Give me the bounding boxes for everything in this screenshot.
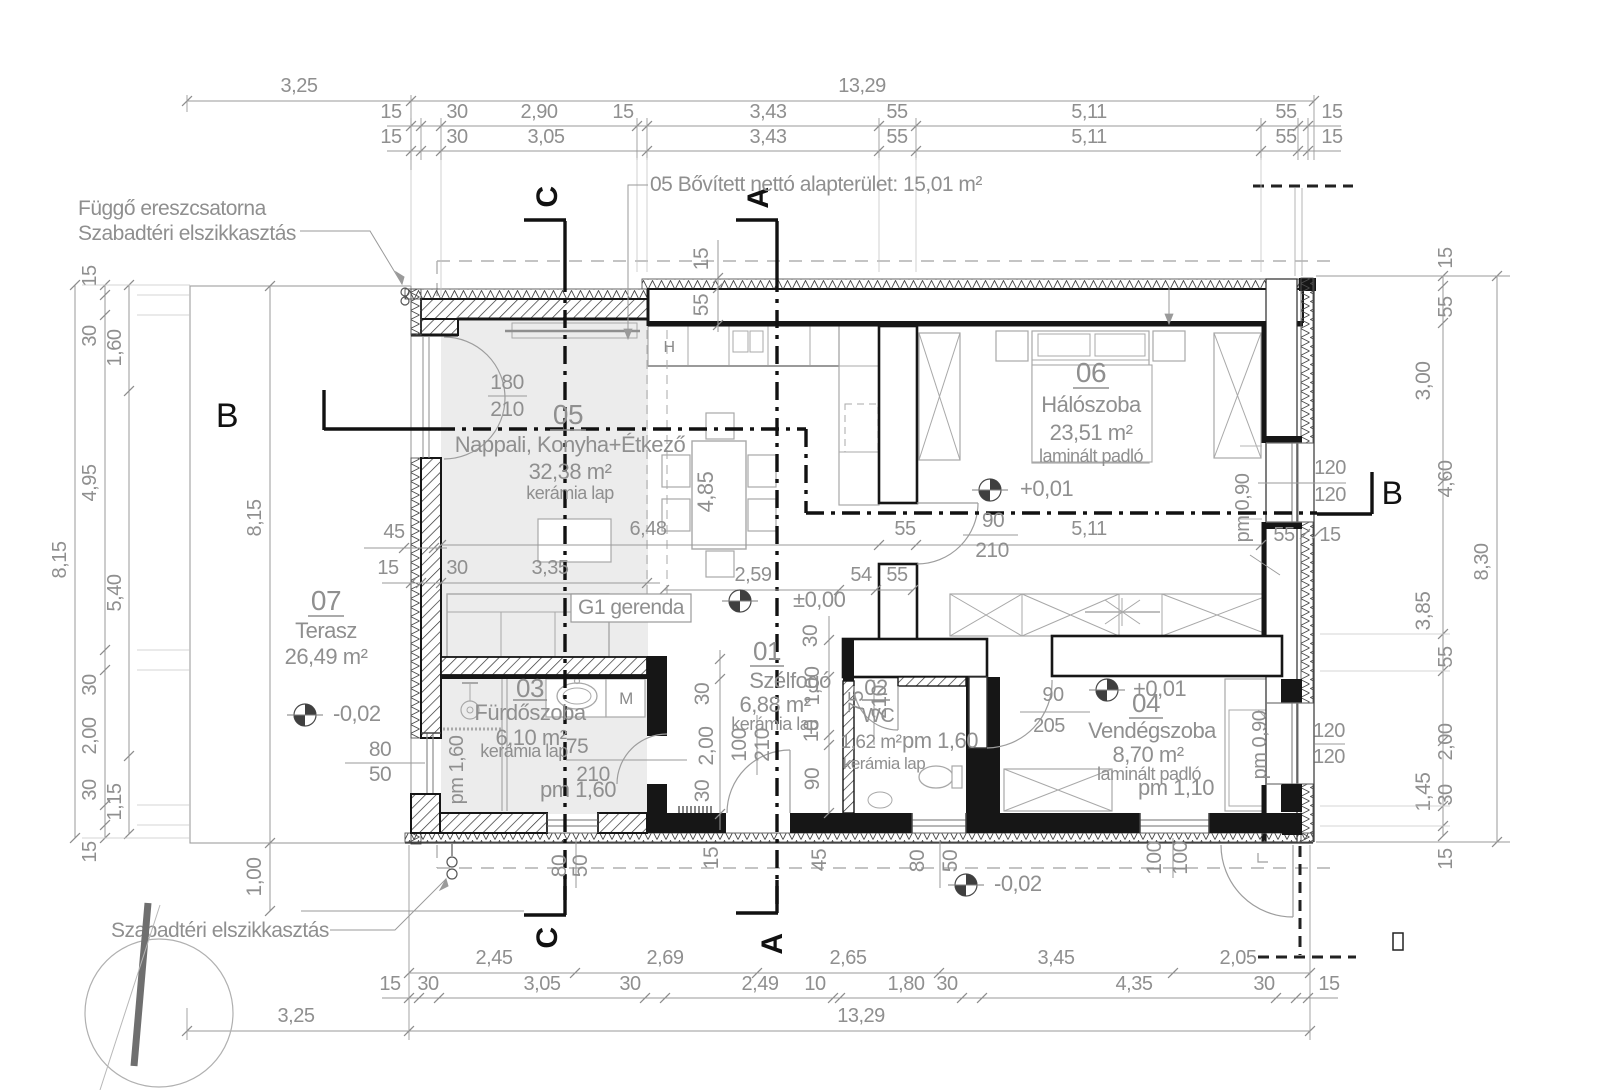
svg-text:4,95: 4,95 — [79, 464, 101, 501]
svg-text:100: 100 — [1169, 841, 1192, 875]
svg-text:26,49 m²: 26,49 m² — [285, 644, 368, 669]
svg-text:03: 03 — [516, 673, 544, 703]
svg-text:50: 50 — [569, 855, 592, 877]
svg-text:3,25: 3,25 — [278, 1005, 315, 1027]
svg-text:55: 55 — [1435, 646, 1457, 668]
svg-text:1,15: 1,15 — [104, 783, 126, 820]
svg-text:15: 15 — [1321, 126, 1343, 148]
svg-text:54: 54 — [850, 564, 872, 586]
svg-text:2,59: 2,59 — [735, 564, 772, 586]
svg-text:3,25: 3,25 — [281, 75, 318, 97]
svg-text:5,40: 5,40 — [104, 574, 126, 611]
svg-text:2,00: 2,00 — [79, 717, 101, 754]
svg-text:2,69: 2,69 — [647, 947, 684, 969]
svg-text:55: 55 — [690, 294, 713, 316]
svg-text:8,15: 8,15 — [244, 499, 266, 536]
svg-text:15: 15 — [1318, 973, 1340, 995]
svg-text:laminált padló: laminált padló — [1039, 446, 1144, 466]
svg-text:M: M — [619, 689, 633, 708]
svg-text:05: 05 — [553, 399, 583, 430]
svg-text:pm 0,90: pm 0,90 — [1232, 473, 1254, 542]
svg-text:120: 120 — [1313, 746, 1345, 768]
svg-text:1,80: 1,80 — [888, 973, 925, 995]
svg-text:1,00: 1,00 — [243, 858, 266, 897]
svg-text:45: 45 — [383, 521, 405, 543]
svg-text:pm 0,90: pm 0,90 — [1249, 710, 1271, 779]
svg-text:55: 55 — [1275, 126, 1297, 148]
svg-text:55: 55 — [1275, 101, 1297, 123]
svg-text:Hálószoba: Hálószoba — [1041, 392, 1142, 417]
svg-text:13,29: 13,29 — [838, 75, 886, 97]
svg-text:C: C — [531, 927, 564, 948]
svg-text:4,60: 4,60 — [1435, 460, 1457, 497]
svg-text:5,11: 5,11 — [1071, 518, 1107, 540]
svg-text:Vendégszoba: Vendégszoba — [1088, 718, 1217, 743]
svg-text:15: 15 — [1319, 524, 1341, 546]
svg-text:55: 55 — [894, 518, 916, 540]
svg-text:180: 180 — [490, 371, 524, 394]
svg-text:30: 30 — [79, 674, 101, 696]
svg-text:3,45: 3,45 — [1038, 947, 1075, 969]
svg-text:3,05: 3,05 — [524, 973, 561, 995]
svg-text:-0,02: -0,02 — [994, 871, 1042, 896]
svg-text:3,00: 3,00 — [1412, 362, 1435, 401]
svg-text:2,90: 2,90 — [521, 101, 558, 123]
svg-text:05 Bővített nettó alapterület:: 05 Bővített nettó alapterület: 15,01 m² — [650, 173, 982, 196]
svg-text:32,38 m²: 32,38 m² — [529, 459, 612, 484]
svg-text:30: 30 — [1253, 973, 1275, 995]
svg-text:2,00: 2,00 — [695, 727, 718, 766]
svg-text:2,00: 2,00 — [1435, 723, 1457, 760]
svg-text:3,85: 3,85 — [1412, 592, 1435, 631]
svg-text:120: 120 — [1313, 720, 1345, 742]
svg-text:laminált padló: laminált padló — [1097, 764, 1202, 784]
svg-text:±0,00: ±0,00 — [793, 587, 846, 612]
svg-text:90: 90 — [982, 509, 1004, 532]
svg-text:4,85: 4,85 — [693, 471, 718, 512]
svg-text:210: 210 — [975, 539, 1009, 562]
svg-text:2,49: 2,49 — [742, 973, 779, 995]
svg-text:3,35: 3,35 — [532, 557, 569, 579]
svg-text:kerámia lap: kerámia lap — [480, 741, 568, 761]
svg-text:1,60: 1,60 — [104, 329, 126, 366]
svg-text:kerámia lap: kerámia lap — [843, 754, 925, 773]
svg-text:3,05: 3,05 — [528, 126, 565, 148]
svg-text:8,15: 8,15 — [49, 541, 71, 578]
svg-text:2,45: 2,45 — [476, 947, 513, 969]
svg-text:15: 15 — [1435, 247, 1457, 269]
svg-text:04: 04 — [1132, 688, 1160, 718]
svg-text:15: 15 — [380, 101, 402, 123]
svg-text:15: 15 — [380, 126, 402, 148]
svg-text:Nappali, Konyha+Étkező: Nappali, Konyha+Étkező — [455, 432, 686, 457]
svg-text:1,62 m²: 1,62 m² — [841, 732, 902, 753]
svg-text:-0,02: -0,02 — [333, 701, 381, 726]
svg-text:15: 15 — [79, 265, 101, 287]
svg-text:Fürdőszoba: Fürdőszoba — [474, 700, 586, 725]
svg-text:B: B — [1382, 475, 1403, 511]
svg-text:205: 205 — [1033, 715, 1065, 737]
svg-text:01: 01 — [753, 636, 781, 666]
svg-text:15: 15 — [79, 841, 101, 863]
svg-text:WC: WC — [862, 705, 894, 727]
svg-text:90: 90 — [1042, 684, 1064, 706]
svg-text:pm 1,60: pm 1,60 — [446, 735, 468, 804]
svg-text:15: 15 — [1435, 848, 1457, 870]
svg-text:80: 80 — [369, 738, 391, 761]
svg-text:2,05: 2,05 — [1220, 947, 1257, 969]
svg-text:+0,01: +0,01 — [1020, 476, 1073, 501]
svg-text:Függő ereszcsatorna: Függő ereszcsatorna — [78, 197, 267, 220]
svg-text:90: 90 — [801, 768, 824, 790]
svg-text:30: 30 — [799, 625, 822, 647]
svg-text:30: 30 — [417, 973, 439, 995]
svg-text:15: 15 — [379, 973, 401, 995]
svg-text:55: 55 — [1435, 296, 1457, 318]
svg-text:23,51 m²: 23,51 m² — [1050, 420, 1133, 445]
svg-text:55: 55 — [886, 101, 908, 123]
svg-text:100: 100 — [1143, 841, 1166, 875]
svg-text:kerámia lap: kerámia lap — [731, 714, 819, 734]
svg-text:30: 30 — [1435, 784, 1457, 806]
svg-text:120: 120 — [1314, 484, 1346, 506]
svg-text:C: C — [531, 186, 564, 207]
svg-text:kerámia lap: kerámia lap — [526, 483, 614, 503]
svg-text:55: 55 — [886, 564, 908, 586]
svg-text:B: B — [216, 397, 238, 435]
svg-text:15: 15 — [700, 847, 723, 869]
svg-text:50: 50 — [369, 763, 391, 786]
svg-text:30: 30 — [446, 101, 468, 123]
svg-text:07: 07 — [311, 585, 341, 616]
svg-text:2,65: 2,65 — [830, 947, 867, 969]
svg-text:45: 45 — [808, 849, 831, 871]
svg-text:15: 15 — [690, 248, 713, 270]
svg-text:13,29: 13,29 — [837, 1005, 885, 1027]
svg-text:55: 55 — [886, 126, 908, 148]
svg-text:75: 75 — [566, 735, 588, 758]
svg-text:50: 50 — [939, 850, 962, 872]
svg-text:G1 gerenda: G1 gerenda — [578, 596, 685, 619]
svg-text:Szabadtéri elszikkasztás: Szabadtéri elszikkasztás — [78, 222, 296, 245]
svg-text:6,48: 6,48 — [630, 518, 667, 540]
svg-text:Terasz: Terasz — [295, 618, 357, 643]
svg-text:30: 30 — [936, 973, 958, 995]
svg-text:80: 80 — [906, 850, 929, 872]
svg-text:06: 06 — [1076, 357, 1106, 388]
svg-text:55: 55 — [1273, 524, 1295, 546]
svg-text:210: 210 — [490, 398, 524, 421]
svg-text:Szélfogó: Szélfogó — [749, 668, 831, 693]
svg-text:8,30: 8,30 — [1471, 543, 1493, 580]
svg-text:4,35: 4,35 — [1116, 973, 1153, 995]
svg-text:5,11: 5,11 — [1071, 101, 1107, 123]
svg-text:30: 30 — [691, 683, 714, 705]
svg-text:3,43: 3,43 — [750, 126, 787, 148]
svg-text:30: 30 — [446, 557, 468, 579]
svg-text:3,43: 3,43 — [750, 101, 787, 123]
svg-text:A: A — [756, 933, 789, 954]
svg-text:30: 30 — [619, 973, 641, 995]
svg-text:10: 10 — [804, 973, 826, 995]
svg-text:30: 30 — [79, 779, 101, 801]
svg-text:80: 80 — [548, 855, 571, 877]
svg-text:H: H — [663, 339, 674, 356]
svg-text:15: 15 — [612, 101, 634, 123]
svg-text:15: 15 — [377, 557, 399, 579]
svg-text:02: 02 — [864, 675, 888, 700]
svg-text:30: 30 — [691, 780, 714, 802]
svg-text:30: 30 — [79, 325, 101, 347]
svg-text:30: 30 — [446, 126, 468, 148]
svg-text:120: 120 — [1314, 457, 1346, 479]
svg-text:15: 15 — [1321, 101, 1343, 123]
svg-text:pm 1,60: pm 1,60 — [540, 777, 616, 802]
svg-text:5,11: 5,11 — [1071, 126, 1107, 148]
svg-text:pm 1,60: pm 1,60 — [902, 728, 978, 753]
